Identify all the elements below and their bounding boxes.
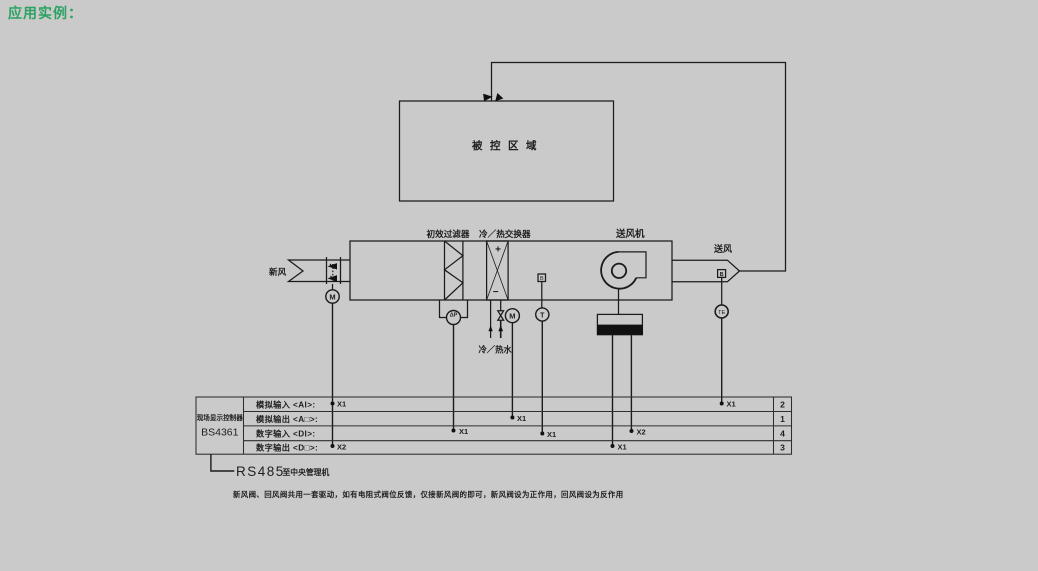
svg-text:ΔP: ΔP	[450, 313, 458, 319]
wire damper to table rows AI/DO	[332, 303, 334, 446]
filter sensor bracket	[440, 300, 447, 318]
damper (two verticals)	[327, 257, 341, 284]
damper actuator circle M	[326, 290, 339, 303]
svg-text:模拟输入 <AI>:: 模拟输入 <AI>:	[256, 400, 316, 410]
duct sensor square B	[538, 274, 546, 282]
svg-text:数字输入 <DI>:: 数字输入 <DI>:	[256, 429, 316, 439]
svg-text:X2: X2	[637, 428, 646, 437]
water valve (bowtie)	[498, 311, 504, 321]
wire T sensor to DI row	[541, 321, 543, 433]
node X1 on AI row	[720, 400, 736, 409]
water pipe right with down arrow	[498, 300, 503, 338]
fan to starter stem	[618, 289, 620, 315]
supply temperature sensor circle TE	[715, 305, 728, 318]
motor starter box	[597, 314, 643, 334]
controller cell 现场显示控制器 BS4361	[197, 413, 244, 439]
svg-text:T: T	[540, 313, 545, 320]
svg-text:模拟输出 <A□>:: 模拟输出 <A□>:	[256, 414, 318, 424]
IO table	[196, 397, 792, 454]
node X1 on DI row	[452, 427, 469, 436]
node X1 on DI row	[540, 430, 556, 439]
svg-text:新风阀、回风阀共用一套驱动，如有电阻式阀位反馈，仅接新风阀的: 新风阀、回风阀共用一套驱动，如有电阻式阀位反馈，仅接新风阀的即可，新风阀设为正作…	[233, 490, 624, 499]
controlled area box 被控区域	[400, 101, 614, 201]
page title 应用实例:	[8, 3, 83, 23]
valve actuator circle M	[505, 309, 519, 323]
RS485 elbow wire	[211, 454, 234, 471]
node X2 on DI row	[630, 428, 646, 437]
svg-text:X1: X1	[337, 400, 346, 409]
svg-text:M: M	[509, 312, 515, 321]
svg-text:冷／热水: 冷／热水	[479, 345, 513, 355]
svg-text:送风机: 送风机	[615, 228, 645, 240]
damper blade upper	[329, 264, 337, 269]
damper linkage dashed	[332, 264, 334, 281]
svg-text:数字输出 <D□>:: 数字输出 <D□>:	[256, 443, 318, 453]
svg-text:+: +	[495, 245, 501, 256]
AHU main box	[350, 241, 672, 300]
svg-text:现场显示控制器: 现场显示控制器	[197, 413, 244, 422]
wire starter left to DO row	[612, 335, 614, 446]
supply fan scroll	[601, 252, 646, 289]
svg-text:BS4361: BS4361	[201, 427, 239, 439]
dP sensor circle	[447, 311, 461, 325]
svg-text:新风: 新风	[269, 266, 287, 277]
wire valve actuator to AO row	[511, 323, 513, 418]
damper blade lower	[329, 276, 337, 281]
svg-text:TE: TE	[718, 310, 726, 316]
node X2 on DO row	[331, 443, 347, 452]
svg-text:初效过滤器: 初效过滤器	[427, 228, 470, 239]
svg-text:至中央管理机: 至中央管理机	[283, 467, 330, 477]
svg-text:X1: X1	[618, 443, 627, 452]
svg-text:3: 3	[780, 443, 785, 453]
supply duct sensor square	[718, 270, 726, 278]
wire starter right to DI row	[630, 335, 632, 431]
airflow arrow right at box top	[496, 94, 503, 101]
svg-text:M: M	[329, 293, 335, 302]
svg-text:B: B	[540, 276, 544, 282]
svg-text:1: 1	[780, 414, 785, 424]
node X1 on DO row	[611, 443, 627, 452]
stem duct sensor to T circle	[541, 282, 543, 309]
stem supply sensor to TE circle	[721, 277, 723, 306]
airflow arrow left at box top	[484, 94, 492, 100]
supply duct with pointed tip	[672, 260, 740, 282]
fresh air duct with chevron tail	[289, 260, 351, 282]
svg-text:2: 2	[780, 400, 785, 410]
return air wire from box top to supply duct tip	[492, 63, 786, 272]
svg-text:−: −	[493, 287, 499, 298]
damper actuator stem	[332, 284, 334, 290]
svg-text:被控区域: 被控区域	[472, 139, 544, 152]
wire dP sensor to DI row	[453, 325, 455, 431]
svg-text:X1: X1	[547, 430, 556, 439]
svg-text:RS485: RS485	[236, 464, 285, 479]
svg-text:X2: X2	[337, 443, 346, 452]
wire TE sensor to AI row	[721, 317, 723, 403]
svg-text:X1: X1	[517, 414, 526, 423]
svg-text:X1: X1	[459, 427, 468, 436]
heat exchanger box with cross	[487, 241, 509, 300]
svg-text:送风: 送风	[713, 243, 732, 254]
svg-text:X1: X1	[727, 400, 736, 409]
temperature sensor circle T	[536, 308, 549, 321]
node X1 on AO row	[510, 414, 526, 423]
filter box with zigzag	[445, 241, 463, 300]
svg-text:冷／热交换器: 冷／热交换器	[479, 228, 531, 239]
water pipe left with up arrow	[488, 300, 492, 338]
svg-text:4: 4	[780, 429, 785, 439]
node X1 on AI row	[331, 400, 347, 409]
